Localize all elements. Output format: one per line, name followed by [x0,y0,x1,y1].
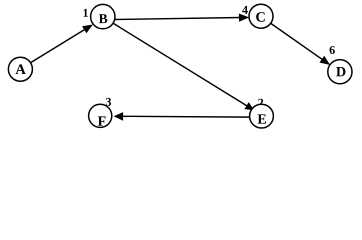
edge weight label 3 [106,98,111,106]
edge weight label 1 [83,9,87,17]
node F [89,104,112,127]
wire: edge B to C [115,14,249,22]
wire: edge A to B [31,25,93,63]
edge weight label 4 [242,6,248,14]
node E [250,104,274,128]
wire: edge E to F [114,112,250,121]
node D [328,60,352,84]
edge weight label 2 [258,99,263,107]
node A [8,57,32,81]
node B [91,4,115,28]
node C [249,4,273,28]
wire: edge C to D [271,23,330,65]
edge weight label 6 [330,46,335,54]
wire: edge B to E [113,23,254,110]
